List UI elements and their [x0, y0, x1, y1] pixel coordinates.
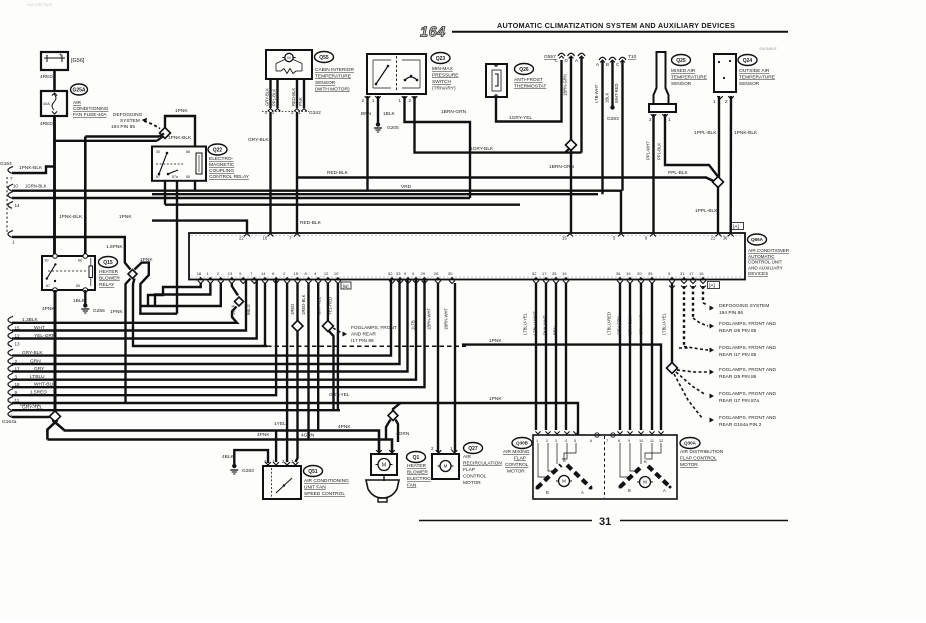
svg-text:LTBLU-YEL: LTBLU-YEL: [523, 312, 528, 335]
svg-text:REAR I25 PIN 85: REAR I25 PIN 85: [719, 328, 757, 334]
svg-text:1BLK: 1BLK: [231, 305, 236, 315]
svg-text:MIN-MAX: MIN-MAX: [432, 66, 454, 72]
svg-text:1BLK: 1BLK: [73, 298, 86, 304]
svg-text:CONTROL UNIT: CONTROL UNIT: [748, 260, 782, 265]
svg-text:40A: 40A: [43, 102, 50, 106]
svg-text:1BRN-WHT: 1BRN-WHT: [427, 307, 432, 330]
svg-text:1BLK: 1BLK: [383, 111, 396, 117]
svg-text:LTBLU-YEL: LTBLU-YEL: [662, 312, 667, 335]
svg-text:AND AUXILIARY: AND AUXILIARY: [748, 265, 783, 270]
svg-text:Q55: Q55: [319, 55, 329, 61]
svg-text:10: 10: [334, 271, 339, 276]
svg-text:5: 5: [574, 439, 576, 443]
svg-text:GRY-YEL: GRY-YEL: [317, 296, 322, 315]
svg-text:SYSTEM: SYSTEM: [120, 118, 140, 124]
svg-text:THERMOSTAT: THERMOSTAT: [514, 84, 546, 90]
svg-text:194 PIN 86: 194 PIN 86: [719, 310, 743, 316]
svg-text:1PNK-BLK: 1PNK-BLK: [734, 130, 758, 136]
svg-text:AIR CONDITIONING: AIR CONDITIONING: [304, 478, 349, 484]
svg-text:FOGLAMPS, FRONT AND: FOGLAMPS, FRONT AND: [719, 367, 776, 373]
svg-text:Q22: Q22: [213, 147, 223, 153]
svg-text:AIR: AIR: [463, 454, 472, 460]
svg-text:14: 14: [15, 203, 21, 208]
svg-text:SPEED CONTROL: SPEED CONTROL: [304, 491, 345, 497]
svg-text:ELECTRO-: ELECTRO-: [209, 156, 234, 162]
svg-text:1.3BLK: 1.3BLK: [22, 317, 39, 323]
svg-text:MAGNETIC: MAGNETIC: [209, 162, 235, 168]
svg-text:29: 29: [421, 271, 426, 276]
svg-text:164: 164: [420, 25, 446, 41]
svg-text:7: 7: [606, 439, 608, 443]
svg-text:FOGLAMPS, FRONT AND: FOGLAMPS, FRONT AND: [719, 415, 776, 421]
svg-text:1BRN-GRN: 1BRN-GRN: [441, 109, 467, 115]
svg-text:SENSOR: SENSOR: [671, 81, 692, 87]
svg-text:1: 1: [12, 240, 15, 245]
svg-text:CONTROL: CONTROL: [463, 474, 487, 480]
svg-text:G25A: G25A: [72, 87, 85, 93]
svg-text:VRD: VRD: [401, 184, 412, 190]
svg-text:GRY-BLK: GRY-BLK: [264, 88, 269, 106]
svg-text:G255: G255: [93, 308, 105, 314]
svg-text:T10: T10: [628, 54, 637, 60]
svg-text:M: M: [382, 462, 386, 468]
svg-text:WHT-RED: WHT-RED: [614, 83, 619, 103]
svg-text:M: M: [444, 464, 448, 469]
svg-text:1PNK-BLK: 1PNK-BLK: [59, 214, 83, 220]
svg-text:FOGLAMPS, FRONT: FOGLAMPS, FRONT: [351, 325, 397, 331]
svg-text:REAR G164a PIN 2: REAR G164a PIN 2: [719, 422, 762, 428]
svg-text:4PNK: 4PNK: [338, 424, 351, 430]
svg-text:G342: G342: [309, 110, 321, 116]
svg-text:BLOWER: BLOWER: [99, 276, 120, 282]
svg-text:UNIT FAN: UNIT FAN: [304, 485, 326, 491]
svg-text:RED-BLK: RED-BLK: [327, 170, 349, 176]
svg-text:G283: G283: [607, 116, 619, 122]
svg-text:REAR I17 PIN 85: REAR I17 PIN 85: [719, 352, 757, 358]
svg-text:PPL-BLK: PPL-BLK: [668, 170, 689, 176]
svg-text:(WITH MOTOR): (WITH MOTOR): [315, 87, 350, 93]
svg-text:OUTSIDE AIR: OUTSIDE AIR: [739, 68, 770, 74]
svg-text:36: 36: [616, 271, 621, 276]
svg-text:RELAY: RELAY: [99, 282, 115, 288]
svg-text:MOTOR: MOTOR: [680, 462, 698, 468]
svg-text:G164a: G164a: [2, 419, 17, 425]
svg-text:30: 30: [156, 150, 160, 154]
svg-text:CONTROL: CONTROL: [505, 462, 529, 468]
svg-text:35: 35: [552, 271, 557, 276]
svg-text:B: B: [628, 488, 631, 493]
svg-text:36: 36: [723, 236, 728, 241]
svg-text:87: 87: [156, 175, 160, 179]
svg-text:GRY-BLK: GRY-BLK: [248, 137, 269, 143]
svg-text:DEFOGGING SYSTEM: DEFOGGING SYSTEM: [719, 303, 769, 309]
svg-text:FLAP CONTROL: FLAP CONTROL: [680, 456, 717, 462]
svg-text:4BLK: 4BLK: [222, 454, 235, 460]
svg-text:G283: G283: [242, 468, 254, 474]
svg-text:2: 2: [546, 439, 548, 443]
svg-text:PPL-BLK: PPL-BLK: [657, 143, 662, 160]
svg-text:CONTROL RELAY: CONTROL RELAY: [209, 174, 250, 180]
svg-text:87a: 87a: [172, 175, 178, 179]
svg-text:YEL-RED: YEL-RED: [328, 297, 333, 315]
svg-text:1BRN-GRN: 1BRN-GRN: [549, 164, 575, 170]
svg-text:TEMPERATURE: TEMPERATURE: [671, 75, 707, 81]
svg-text:GRY-YEL: GRY-YEL: [20, 402, 41, 408]
svg-text:PPL-WHT: PPL-WHT: [646, 141, 651, 160]
svg-text:1BRN-GRN: 1BRN-GRN: [563, 74, 568, 96]
svg-text:HEATER: HEATER: [407, 463, 427, 469]
svg-text:ANTI-FROST: ANTI-FROST: [514, 77, 543, 83]
svg-text:Q15: Q15: [103, 260, 113, 266]
svg-text:AUTOMATIC CLIMATIZATION SYSTEM: AUTOMATIC CLIMATIZATION SYSTEM AND AUXIL…: [497, 21, 735, 30]
svg-text:17: 17: [542, 271, 547, 276]
svg-text:39: 39: [648, 271, 653, 276]
svg-text:15: 15: [294, 271, 299, 276]
svg-text:G164: G164: [0, 161, 12, 167]
svg-text:Q66A: Q66A: [751, 237, 764, 242]
svg-text:A: A: [575, 58, 578, 63]
svg-text:1PNK-BLK: 1PNK-BLK: [19, 165, 43, 171]
svg-text:AUTOMATIC: AUTOMATIC: [748, 254, 775, 259]
svg-text:Q30B: Q30B: [516, 441, 529, 446]
svg-text:6: 6: [590, 439, 592, 443]
svg-text:1BRN-WHT: 1BRN-WHT: [444, 307, 449, 330]
svg-text:CONDITIONING: CONDITIONING: [73, 106, 109, 112]
svg-text:1: 1: [10, 414, 13, 420]
svg-text:1LTB: 1LTB: [411, 320, 416, 330]
svg-text:AIR DISTRIBUTION: AIR DISTRIBUTION: [680, 449, 724, 455]
svg-text:16: 16: [699, 271, 704, 276]
svg-text:-: -: [46, 53, 48, 59]
svg-text:1GRY-YEL: 1GRY-YEL: [509, 115, 533, 121]
svg-text:FOGLAMPS, FRONT AND: FOGLAMPS, FRONT AND: [719, 345, 776, 351]
svg-text:AIR CONDITIONER: AIR CONDITIONER: [748, 248, 790, 253]
svg-text:86: 86: [78, 259, 82, 263]
svg-text:1GRY-BLK: 1GRY-BLK: [470, 146, 494, 152]
svg-text:GRY-YEL: GRY-YEL: [329, 392, 350, 398]
svg-text:FLAP: FLAP: [514, 456, 526, 462]
svg-text:1RED: 1RED: [290, 304, 295, 315]
svg-text:FOGLAMPS, FRONT AND: FOGLAMPS, FRONT AND: [719, 391, 776, 397]
svg-text:87: 87: [46, 284, 50, 288]
svg-text:30: 30: [45, 259, 49, 263]
svg-text:Q51: Q51: [308, 469, 318, 475]
svg-text:AIR: AIR: [73, 100, 82, 106]
svg-text:LTBLU-RED: LTBLU-RED: [607, 312, 612, 335]
svg-text:SENSOR: SENSOR: [739, 81, 760, 87]
svg-text:1PNK: 1PNK: [489, 396, 502, 402]
svg-text:4PNK: 4PNK: [257, 432, 270, 438]
svg-text:CABIN INTERIOR: CABIN INTERIOR: [315, 67, 354, 73]
svg-text:RED-BLK: RED-BLK: [291, 88, 296, 106]
svg-text:LTB-WHT: LTB-WHT: [594, 84, 599, 103]
svg-text:+: +: [59, 53, 63, 59]
svg-text:PNK: PNK: [298, 97, 303, 106]
svg-text:I17 PIN 86: I17 PIN 86: [351, 338, 374, 344]
svg-text:20: 20: [637, 271, 642, 276]
svg-text:Q24: Q24: [743, 58, 753, 64]
svg-text:19: 19: [626, 271, 631, 276]
svg-text:31: 31: [680, 271, 685, 276]
svg-text:1PNK-BLK: 1PNK-BLK: [168, 135, 192, 141]
svg-text:1: 1: [536, 439, 538, 443]
svg-text:AIR MIXING: AIR MIXING: [503, 449, 530, 455]
svg-text:1PNK: 1PNK: [110, 309, 123, 315]
svg-text:[B]: [B]: [343, 284, 349, 289]
svg-text:12: 12: [659, 439, 663, 443]
svg-text:Q27: Q27: [468, 446, 478, 452]
svg-text:1RED-BLK: 1RED-BLK: [301, 294, 306, 315]
svg-text:3: 3: [555, 439, 557, 443]
svg-text:9BLU: 9BLU: [246, 305, 251, 315]
svg-text:out with hyst: out with hyst: [27, 2, 53, 7]
svg-text:4RED: 4RED: [40, 121, 53, 127]
svg-text:G205: G205: [387, 125, 399, 131]
svg-text:4: 4: [565, 439, 567, 443]
svg-text:MOTOR: MOTOR: [507, 469, 525, 475]
svg-text:1PNK: 1PNK: [119, 214, 132, 220]
svg-text:1.5PNK: 1.5PNK: [106, 244, 123, 250]
svg-text:10: 10: [639, 439, 643, 443]
svg-text:FLAP: FLAP: [463, 467, 475, 473]
svg-text:16: 16: [263, 236, 268, 241]
svg-text:RED-BLK: RED-BLK: [300, 220, 322, 226]
svg-text:8: 8: [618, 439, 620, 443]
svg-text:B: B: [606, 62, 609, 67]
svg-text:85: 85: [186, 175, 190, 179]
svg-text:22: 22: [239, 236, 244, 241]
svg-text:9: 9: [628, 439, 630, 443]
svg-text:SENSOR: SENSOR: [315, 80, 336, 86]
svg-text:A: A: [663, 488, 666, 493]
svg-text:ELECTRIC: ELECTRIC: [407, 476, 431, 482]
svg-text:B: B: [644, 459, 647, 464]
svg-text:B: B: [546, 490, 549, 495]
svg-text:194 PIN 85: 194 PIN 85: [111, 124, 135, 130]
svg-text:13: 13: [15, 342, 21, 347]
svg-text:A: A: [581, 490, 584, 495]
svg-text:17: 17: [689, 271, 694, 276]
svg-text:PNK-WHT: PNK-WHT: [543, 315, 548, 335]
svg-text:31: 31: [599, 516, 611, 528]
svg-text:1PPL-BLK: 1PPL-BLK: [695, 208, 718, 214]
svg-text:4RED: 4RED: [40, 74, 53, 80]
svg-text:4’AONAUF: 4’AONAUF: [759, 47, 778, 51]
svg-text:REAR I25 PIN 86: REAR I25 PIN 86: [719, 374, 757, 380]
svg-text:Q1: Q1: [413, 455, 420, 461]
svg-text:4PNK: 4PNK: [42, 306, 55, 312]
svg-text:1GRN-BLK: 1GRN-BLK: [25, 184, 47, 189]
svg-text:BRN: BRN: [553, 326, 558, 335]
svg-text:33: 33: [396, 271, 401, 276]
svg-text:13: 13: [228, 271, 233, 276]
svg-text:11: 11: [650, 439, 654, 443]
svg-text:GRY-GRN: GRY-GRN: [617, 316, 622, 335]
svg-text:30: 30: [448, 271, 453, 276]
svg-text:Q30A: Q30A: [684, 441, 697, 446]
svg-text:MOTOR: MOTOR: [463, 480, 481, 486]
svg-text:GRN-WHT: GRN-WHT: [639, 314, 644, 335]
svg-text:32: 32: [388, 271, 393, 276]
svg-text:1PPL-BLK: 1PPL-BLK: [694, 130, 717, 136]
svg-text:A: A: [596, 62, 599, 67]
svg-text:DEVICES: DEVICES: [748, 271, 768, 276]
svg-text:18: 18: [197, 271, 202, 276]
svg-text:FAN FUSE-40A: FAN FUSE-40A: [73, 112, 107, 118]
svg-text:GRN-BLK: GRN-BLK: [628, 316, 633, 335]
svg-text:SWITCH: SWITCH: [432, 79, 451, 85]
svg-text:PRESSURE: PRESSURE: [432, 73, 458, 79]
svg-text:M: M: [562, 479, 566, 484]
svg-text:1YEL: 1YEL: [274, 421, 286, 427]
svg-text:12: 12: [324, 271, 329, 276]
svg-text:FOGLAMPS, FRONT AND: FOGLAMPS, FRONT AND: [719, 321, 776, 327]
svg-text:REAR I17 PIN 87a: REAR I17 PIN 87a: [719, 398, 759, 404]
svg-text:TEMPERATURE: TEMPERATURE: [739, 75, 775, 81]
svg-text:DEFOGGING: DEFOGGING: [113, 112, 143, 118]
svg-text:19: 19: [562, 271, 567, 276]
svg-text:PPL-BLK: PPL-BLK: [271, 89, 276, 106]
svg-text:28: 28: [434, 271, 439, 276]
svg-text:M: M: [287, 56, 290, 60]
svg-text:RECIRCULATION: RECIRCULATION: [463, 461, 502, 467]
svg-text:86: 86: [186, 150, 190, 154]
svg-text:MIXED AIR: MIXED AIR: [671, 68, 696, 74]
svg-text:B: B: [563, 458, 566, 463]
svg-text:[G56]: [G56]: [71, 58, 85, 64]
svg-text:COUPLING: COUPLING: [209, 168, 234, 174]
svg-text:1PNK: 1PNK: [489, 338, 502, 344]
svg-text:(TRIVARY): (TRIVARY): [432, 86, 456, 92]
svg-text:1PNK: 1PNK: [175, 108, 188, 114]
svg-text:BLOWER: BLOWER: [407, 470, 428, 476]
svg-text:FAN: FAN: [407, 483, 417, 489]
svg-text:AND REAR: AND REAR: [351, 332, 376, 338]
svg-text:Q23: Q23: [436, 56, 446, 62]
svg-text:7: 7: [10, 176, 13, 181]
svg-text:1BLK: 1BLK: [605, 93, 610, 103]
svg-text:Q25: Q25: [676, 58, 686, 64]
svg-text:M: M: [643, 480, 647, 485]
svg-text:HEATER: HEATER: [99, 269, 119, 275]
svg-text:14: 14: [261, 271, 266, 276]
svg-text:10: 10: [13, 184, 18, 189]
svg-text:85: 85: [76, 284, 80, 288]
svg-text:TEMPERATURE: TEMPERATURE: [315, 74, 351, 80]
svg-text:15: 15: [562, 236, 567, 241]
svg-text:21: 21: [711, 236, 716, 241]
svg-text:32: 32: [532, 271, 537, 276]
svg-text:LTBLU-WHT: LTBLU-WHT: [533, 311, 538, 335]
svg-text:Q26: Q26: [519, 67, 529, 73]
